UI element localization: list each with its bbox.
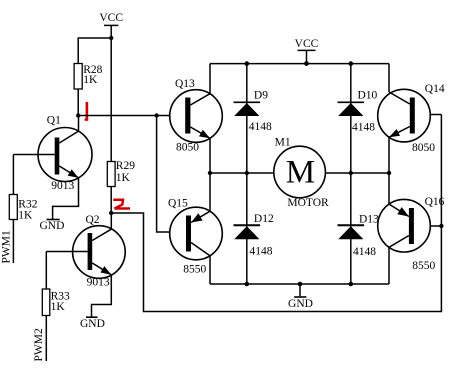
- svg-text:PWM1: PWM1: [1, 230, 13, 263]
- wire Q16 base: [414, 225, 442, 227]
- svg-text:1K: 1K: [51, 301, 66, 313]
- svg-text:4148: 4148: [249, 121, 272, 133]
- svg-text:4148: 4148: [250, 245, 273, 257]
- transistor Q14: [378, 83, 445, 154]
- svg-text:Q16: Q16: [425, 196, 445, 208]
- svg-text:8050: 8050: [412, 142, 435, 154]
- diode D13: [338, 213, 380, 257]
- wire down to Q15 base: [157, 116, 186, 233]
- wire D9 column: [246, 64, 248, 173]
- svg-text:GND: GND: [288, 298, 313, 310]
- node Q16 base junction: [439, 224, 443, 228]
- svg-text:VCC: VCC: [99, 12, 123, 24]
- wire D12 column: [246, 173, 248, 284]
- transistor Q1: [38, 115, 92, 192]
- transistor Q16: [378, 196, 445, 272]
- svg-text:8550: 8550: [412, 260, 435, 272]
- svg-text:PWM2: PWM2: [33, 328, 45, 361]
- svg-text:GND: GND: [80, 318, 105, 330]
- resistor R29: [107, 160, 135, 187]
- wire Q16 emitter: [388, 173, 390, 204]
- node motor line left junction: [208, 171, 212, 175]
- svg-text:D12: D12: [254, 213, 274, 225]
- wire Q1 collector: [78, 116, 80, 132]
- ground bottom: [288, 284, 313, 310]
- svg-text:D10: D10: [358, 89, 378, 101]
- svg-text:Q14: Q14: [425, 83, 445, 95]
- wire to R28: [78, 38, 111, 64]
- svg-text:R29: R29: [116, 160, 135, 172]
- wire R29 column: [110, 38, 112, 213]
- wire Q13 collector: [209, 64, 211, 94]
- ground Q2: [80, 317, 105, 330]
- svg-text:8550: 8550: [183, 264, 206, 276]
- wire Q1 base: [13, 154, 54, 156]
- wire Q16 collector: [388, 247, 390, 284]
- svg-text:MOTOR: MOTOR: [287, 197, 329, 209]
- red annotation mark 2: [113, 200, 130, 209]
- svg-text:1K: 1K: [116, 172, 131, 184]
- node D10 top junction: [349, 61, 354, 66]
- node D9 top junction: [245, 61, 250, 66]
- motor M1: [274, 137, 329, 209]
- wire R33 column: [45, 252, 47, 362]
- svg-text:1K: 1K: [83, 74, 98, 86]
- power VCC left: [99, 12, 123, 38]
- wire Q2 collector: [110, 213, 112, 229]
- wire top VCC rail: [210, 63, 389, 65]
- wire Q14 base: [415, 114, 442, 116]
- wire Q2 base: [46, 251, 87, 253]
- wire GND rail: [210, 283, 389, 285]
- transistor Q15: [168, 198, 222, 276]
- svg-text:4148: 4148: [353, 246, 376, 258]
- node VCC rail junction: [304, 61, 309, 66]
- svg-text:9013: 9013: [87, 276, 110, 288]
- wire Q14 emitter: [388, 137, 390, 173]
- wire Q14 collector: [388, 64, 390, 92]
- svg-text:9013: 9013: [51, 180, 74, 192]
- wire drive line Q2 to right bridge: [111, 115, 441, 312]
- svg-text:M: M: [286, 154, 315, 190]
- transistor Q2: [73, 214, 126, 288]
- wire Q1 emitter to ground: [53, 178, 79, 220]
- resistor R33: [42, 289, 70, 316]
- svg-text:D13: D13: [359, 213, 379, 225]
- wire D13 column: [350, 173, 352, 284]
- wire base rail to Q13: [78, 115, 185, 117]
- power VCC right: [295, 38, 319, 64]
- svg-text:D9: D9: [254, 89, 268, 101]
- wire Q15 emitter: [209, 173, 211, 211]
- wire Q2 emitter to ground: [92, 275, 112, 317]
- wire R28 bottom lead: [77, 89, 79, 116]
- diode D9: [234, 89, 273, 133]
- svg-text:Q15: Q15: [168, 198, 188, 210]
- node motor line right junction: [387, 171, 391, 175]
- resistor R28: [74, 64, 103, 90]
- resistor R32: [9, 195, 37, 222]
- red annotation mark 1: [85, 102, 89, 120]
- node VCC-left junction: [109, 36, 113, 40]
- wire R32 column: [12, 155, 14, 264]
- node D12 bottom junction: [245, 282, 250, 287]
- wire D10 column: [350, 64, 352, 173]
- node GND tap junction: [298, 282, 303, 287]
- wire Q13 emitter: [209, 138, 211, 173]
- svg-text:VCC: VCC: [295, 38, 319, 50]
- svg-text:8050: 8050: [176, 141, 199, 153]
- node Q15 base tap junction: [154, 113, 158, 117]
- svg-text:GND: GND: [40, 220, 65, 232]
- svg-text:Q2: Q2: [86, 214, 100, 226]
- diode D12: [234, 213, 274, 257]
- node D9 bottom junction: [245, 171, 249, 175]
- wire motor right: [325, 172, 389, 174]
- svg-text:M1: M1: [275, 137, 291, 149]
- node R29/Q2 collector junction: [109, 211, 113, 215]
- diode D10: [338, 89, 378, 133]
- wire Q15 collector: [209, 256, 211, 284]
- node D13 bottom junction: [349, 282, 354, 287]
- node D10 bottom junction: [349, 171, 353, 175]
- wire motor left: [210, 172, 274, 174]
- svg-text:Q1: Q1: [47, 115, 61, 127]
- node Q1 collector junction: [76, 113, 80, 117]
- ground Q1: [40, 220, 65, 233]
- svg-text:Q13: Q13: [175, 78, 195, 90]
- transistor Q13: [170, 78, 223, 153]
- svg-text:1K: 1K: [18, 210, 33, 222]
- svg-text:4148: 4148: [352, 121, 375, 133]
